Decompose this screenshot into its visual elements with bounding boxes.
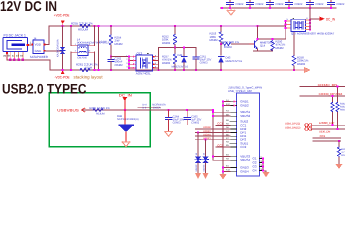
wire data net DN2 (196, 126, 231, 129)
transistor Q17 pmos pack (285, 8, 335, 36)
ground arrow under D48 (122, 142, 130, 147)
Q13 left pins (128, 57, 130, 68)
net arrow right end of bottom bus (304, 67, 310, 72)
resistor R252 (162, 26, 177, 48)
ground arrow G pins (262, 172, 269, 177)
power symbol DC_IN (119, 93, 132, 110)
capacitor C261 (193, 48, 212, 70)
resistor R250 (257, 29, 286, 52)
svg-text:R0402: R0402 (162, 41, 171, 45)
svg-text:U2DP1: U2DP1 (203, 137, 211, 140)
resistor R258 (292, 31, 309, 70)
capacitor C row 1 (227, 0, 244, 8)
connector pin numbers left (226, 99, 231, 172)
svg-text:C0402: C0402 (115, 63, 124, 67)
svg-text:C0402: C0402 (316, 3, 324, 6)
capacitor C262 (108, 56, 123, 70)
ground arrow below cap bus (227, 8, 235, 15)
capacitor C264 (165, 109, 184, 131)
capacitor C row 6 (328, 0, 345, 8)
wire bottom bus -VDC left segment (50, 69, 221, 71)
net USM_DN wire with beads (285, 126, 345, 133)
capacitor bus top right (221, 7, 337, 9)
svg-text:SD24C: SD24C (195, 164, 198, 171)
svg-text:VDD: VDD (35, 43, 42, 47)
svg-text:a b c d e: a b c d e (3, 55, 24, 58)
svg-text:GND2: GND2 (240, 104, 249, 108)
diode D47 ESD TVS (202, 139, 208, 173)
resistor R255 jumper inline on top bus (71, 22, 93, 32)
resistor R265 jumper inline (89, 106, 110, 116)
svg-text:R0402: R0402 (297, 62, 306, 66)
net label CC2 + wire (216, 143, 230, 147)
svg-text:C0402: C0402 (295, 3, 303, 6)
svg-text:USM_DN(J2): USM_DN(J2) (285, 126, 301, 129)
svg-text:CC2: CC2 (240, 145, 246, 149)
node dots on cap bus (221, 7, 332, 9)
svg-text:R0402: R0402 (224, 46, 232, 49)
svg-text:R0402: R0402 (115, 42, 124, 46)
capacitor C row 3 (267, 0, 284, 8)
capacitor C row 4 (286, 0, 303, 8)
transistor Q14 (249, 26, 274, 51)
resistor R257 (162, 48, 177, 70)
svg-text:Q14: Q14 (260, 45, 266, 48)
svg-text:G4: G4 (253, 168, 257, 172)
green highlight box (49, 93, 150, 147)
svg-text:SD24C: SD24C (202, 164, 205, 171)
diode D46 ESD TVS (195, 132, 201, 174)
capacitor C row 2 (247, 0, 264, 8)
wire data net DP1 (196, 130, 231, 133)
net label USBVBUS (57, 108, 85, 112)
svg-text:12V DC IN: 12V DC IN (0, 0, 57, 15)
value labels R262 R263 (340, 103, 345, 112)
svg-text:C0402: C0402 (337, 3, 345, 6)
transistor Q13 (126, 52, 158, 76)
net label CC1 + wire (216, 122, 230, 126)
ground arrow under C264 (165, 132, 173, 137)
resistor R256 (221, 41, 249, 49)
resistor R253 (210, 26, 223, 55)
diode D48 (117, 109, 139, 142)
svg-text:C0402: C0402 (276, 3, 284, 6)
resistor R261 jumper inline on bottom bus (76, 63, 98, 72)
net labels at green box exit (138, 104, 166, 110)
wire Q14 emitter / R250 bottom (253, 50, 273, 52)
wire data net DP2 (196, 137, 231, 140)
svg-text:USM_DP(J2): USM_DP(J2) (285, 123, 300, 126)
wire J4 GND to TVS rail (45, 50, 62, 52)
wire data net DN1 (196, 133, 231, 136)
inductor L4 common mode choke (71, 26, 110, 70)
resistor R262 series (331, 95, 334, 125)
svg-text:DC_IN: DC_IN (119, 93, 132, 97)
wire left rail to jack (44, 26, 49, 45)
wire top bus +VDC highlighted segment (99, 25, 258, 27)
ground arrow under D46 (195, 173, 201, 179)
svg-text:R265 1/16W 1%: R265 1/16W 1% (89, 106, 110, 110)
svg-text:1/16W: 1/16W (99, 41, 107, 44)
svg-text:AON7403L: AON7403L (136, 72, 151, 76)
svg-text:VBUS4: VBUS4 (240, 158, 250, 162)
wire G pins common to ground (263, 159, 266, 172)
svg-text:R04: R04 (341, 154, 345, 157)
net CC1 wires right (313, 134, 341, 142)
svg-text:P3 DC JACK 1: P3 DC JACK 1 (4, 34, 27, 38)
wire Q13 drain rail (157, 48, 159, 70)
svg-text:VBUS2: VBUS2 (240, 114, 250, 118)
svg-text:U2DN1: U2DN1 (203, 133, 212, 136)
svg-text:R0402: R0402 (210, 38, 219, 42)
power net arrow DC_IN top right (310, 17, 335, 22)
net USM_DP wire with beads (285, 121, 345, 127)
svg-text:USB_TYPE-C_16P: USB_TYPE-C_16P (228, 89, 252, 93)
svg-text:SATAPOWER: SATAPOWER (30, 55, 49, 59)
pin numbers right C1-C4 (259, 156, 263, 171)
wire VBUS horizontal (83, 109, 213, 111)
svg-text:MMSZ24VT1G: MMSZ24VT1G (226, 60, 243, 63)
svg-text:R0402: R0402 (276, 46, 285, 50)
node junctions on top bus (62, 25, 259, 27)
ground arrow right bottom (335, 164, 342, 169)
wire VBUS rail drop to VBUS1/2 and VBUS3/4 (212, 110, 214, 160)
wire jack shield to bottom bus (7, 60, 50, 70)
wire top bus +VDC left segment (49, 25, 99, 27)
svg-text:-VDC-POE: -VDC-POE (55, 75, 70, 79)
pink arrows GND1 GND2 pins (234, 100, 237, 106)
diode D44 zener (172, 47, 189, 70)
capacitor C row 5 (307, 0, 324, 8)
svg-text:R0JUM: R0JUM (78, 28, 89, 32)
connector J18 USB type-C (228, 86, 262, 176)
svg-text:D-0: D-0 (142, 106, 147, 109)
power symbol +VDC-POE (54, 13, 70, 26)
svg-text:100CA: 100CA (153, 106, 161, 109)
connector J4 (30, 36, 63, 59)
svg-text:D44: D44 (178, 54, 183, 57)
svg-text:4/JUM: 4/JUM (85, 66, 93, 69)
ground arrow under connector (219, 174, 227, 180)
connector pin stubs right G1-G4 (260, 159, 264, 171)
diode D43 TVS SMBJ13A (57, 26, 66, 70)
wire R250 top to Q17 gate (258, 29, 286, 39)
net CH340_DP wire (300, 92, 345, 96)
svg-text:CM7060: CM7060 (77, 57, 87, 60)
svg-text:stacking layout: stacking layout (74, 75, 104, 80)
resistor R264 pulldown (337, 141, 345, 164)
resistor R254 (99, 26, 123, 57)
node R254-C262 (110, 56, 112, 58)
ground arrow under D47 (203, 173, 209, 179)
svg-text:R0JUM: R0JUM (96, 112, 105, 115)
svg-text:U2DP2: U2DP2 (203, 130, 211, 133)
wire GND rail left of connector (222, 101, 230, 174)
Q13 right pins (153, 57, 159, 68)
svg-text:USB2.0 TYPEC: USB2.0 TYPEC (2, 82, 87, 97)
svg-text:U2DN2: U2DN2 (203, 126, 212, 129)
wire bottom bus -VDC right segment (221, 69, 304, 71)
svg-text:C0402: C0402 (256, 3, 264, 6)
wire to Q13 gate rail (111, 56, 129, 58)
node junctions on bottom bus (62, 69, 295, 71)
svg-text:C0603: C0603 (200, 61, 208, 64)
svg-text:+VDC-POE: +VDC-POE (54, 13, 70, 17)
svg-text:MMSZ13VT1G: MMSZ13VT1G (172, 65, 189, 68)
svg-text:C0603: C0603 (173, 122, 181, 125)
svg-text:R0402: R0402 (340, 109, 345, 112)
connector pin stubs left (230, 102, 237, 172)
svg-text:USBVBUS: USBVBUS (57, 108, 79, 112)
connector pin names (240, 100, 257, 174)
node R252/R257 (174, 47, 176, 49)
net CH340_DN wire (300, 83, 345, 87)
capacitor C265 (184, 109, 202, 125)
connector P3 DC JACK (3, 34, 33, 52)
wire rail x98.7 (98, 26, 100, 70)
svg-text:R0402: R0402 (162, 61, 171, 65)
wire top bus +VDC right segment (258, 25, 286, 27)
svg-text:NC/FJQ4C3N04(A): NC/FJQ4C3N04(A) (117, 118, 139, 121)
svg-text:GND: GND (35, 49, 43, 53)
svg-text:KAJVD5V0L9A: KAJVD5V0L9A (57, 39, 60, 57)
wire mid horizontal net (158, 47, 196, 49)
svg-text:GND4: GND4 (240, 169, 249, 173)
svg-text:C0402: C0402 (236, 3, 244, 6)
svg-text:C0402: C0402 (191, 122, 199, 125)
resistor R263 series (336, 86, 339, 129)
jack shield pins (3, 52, 50, 70)
svg-text:DC_IN: DC_IN (326, 18, 335, 22)
svg-text:CC1: CC1 (320, 134, 326, 138)
power symbol -VDC-POE (55, 71, 70, 80)
diode D45 zener (218, 57, 242, 70)
svg-text:Q17 AON6403/4307 #K0B 4203AT: Q17 AON6403/4307 #K0B 4203AT (291, 32, 334, 36)
